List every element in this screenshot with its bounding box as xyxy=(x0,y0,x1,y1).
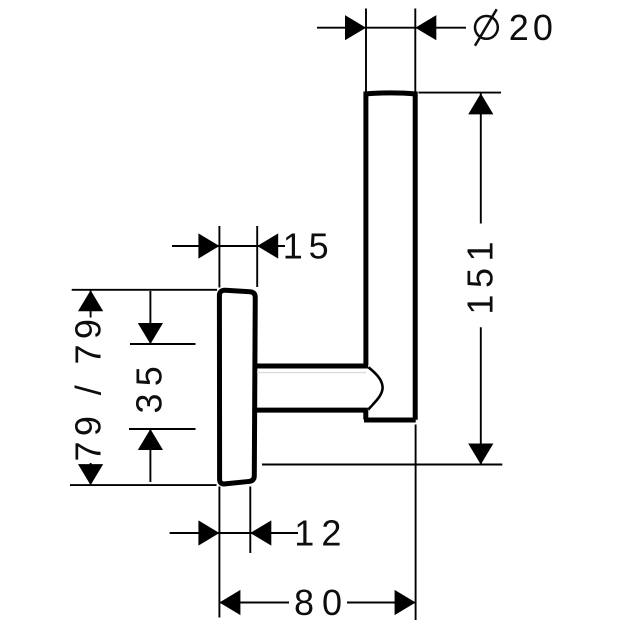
dim 12 extension right xyxy=(249,487,251,554)
dim 79/79 line lower xyxy=(90,463,92,485)
dim 15 line xyxy=(172,245,285,247)
dim 12 line xyxy=(170,532,298,534)
dim 15 extension right xyxy=(256,226,258,287)
dim 12 arrow left xyxy=(198,520,219,545)
dim 151 top extension xyxy=(419,92,502,94)
dim D20 line xyxy=(317,27,466,29)
dim 79/79 line upper xyxy=(90,290,92,317)
svg-text:80: 80 xyxy=(294,582,350,623)
arm bottom edge xyxy=(257,408,368,413)
tube T1 bottom edge xyxy=(364,418,416,423)
svg-text:151: 151 xyxy=(460,235,501,315)
dim D20 arrow right xyxy=(415,15,436,40)
dim 151 arrow up xyxy=(468,93,493,114)
svg-text:79 / 79: 79 / 79 xyxy=(68,314,109,462)
dim 79/79 bottom extension xyxy=(70,484,217,486)
dim D20 extension line right xyxy=(414,9,416,92)
tube bottom step xyxy=(363,410,368,420)
dim 151 line upper xyxy=(480,93,482,223)
dim 80 line right xyxy=(347,602,416,604)
dim 151 arrow down xyxy=(468,444,493,465)
dim 15 extension left xyxy=(218,226,220,288)
dim 80 arrow right xyxy=(395,590,416,615)
dim 79/79 top extension xyxy=(72,289,217,291)
plate P1 (wall plate, side view) xyxy=(219,290,255,484)
dim 35 arrow down xyxy=(138,323,163,344)
svg-text:20: 20 xyxy=(509,7,557,48)
diameter symbol xyxy=(475,16,498,39)
svg-text:15: 15 xyxy=(283,225,335,266)
dim 15 arrow right xyxy=(257,233,278,258)
dim 79/79 arrow up xyxy=(78,290,103,311)
arm highlight line (faint) xyxy=(257,372,366,374)
tube T1 left edge xyxy=(363,93,368,366)
dim 80 arrow left xyxy=(219,590,240,615)
dim 12 extension left xyxy=(218,487,220,618)
dim 12 arrow right xyxy=(250,520,271,545)
dim 35 tick bottom xyxy=(129,428,196,430)
dim 151 line lower xyxy=(480,327,482,464)
svg-text:35: 35 xyxy=(129,359,170,414)
dim 35 tick top xyxy=(130,343,196,345)
dim 151 bottom extension xyxy=(262,464,502,466)
tube T1 right edge xyxy=(413,92,418,420)
arm top edge xyxy=(257,364,369,369)
dim 80 line left xyxy=(219,602,289,604)
arm-tube junction curve xyxy=(368,367,382,409)
dim 80 extension right xyxy=(415,425,417,621)
dim 79/79 arrow down xyxy=(78,464,103,485)
dim D20 extension line left xyxy=(365,9,367,92)
dim 35 arrow up xyxy=(138,429,163,450)
svg-text:12: 12 xyxy=(294,512,348,553)
dim 35 leader top xyxy=(149,291,151,343)
dim D20 arrow left xyxy=(345,15,366,40)
tube T1 top edge xyxy=(364,93,418,94)
dim 35 leader bottom xyxy=(149,430,151,482)
dim 15 arrow left xyxy=(198,233,219,258)
